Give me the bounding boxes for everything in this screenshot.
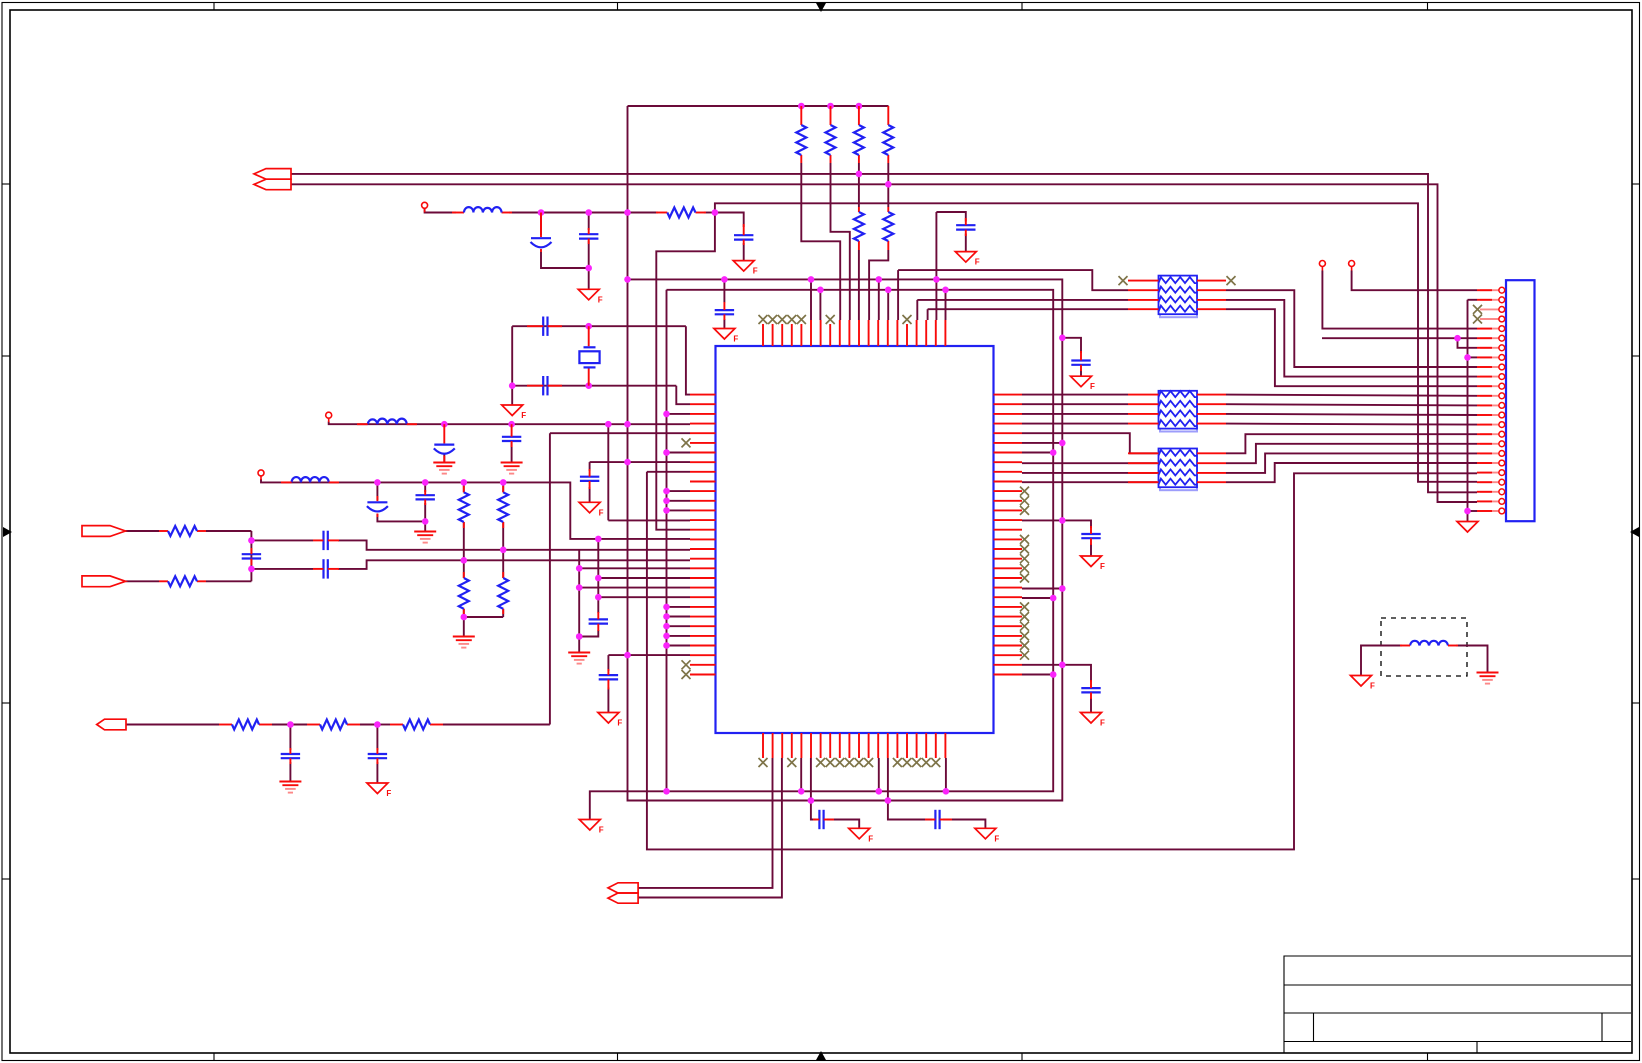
- wire row L26 from bus: [667, 635, 691, 637]
- wire cap C20 gnd link: [1090, 698, 1092, 712]
- wire net pin t18 to pack1 row4: [927, 309, 929, 320]
- svg-text:F: F: [733, 335, 738, 344]
- ground F4: [714, 329, 739, 344]
- no-connect bottom 8: [826, 758, 835, 767]
- wire pack2 row4 to connector: [1226, 424, 1477, 425]
- wire pack1 row2 to p9: [1226, 290, 1477, 367]
- wire net pin t17 to pack1 row3 b: [917, 299, 1128, 301]
- wire top rail y106: [628, 105, 889, 107]
- wire res divider B top: [502, 482, 504, 492]
- dashed box filter: [1381, 618, 1467, 676]
- wire row1 rail y424: [329, 422, 690, 425]
- wire crystal left link: [511, 326, 513, 405]
- ground F12: [849, 828, 874, 843]
- IC U1 left pins: [690, 395, 716, 675]
- node bus579 a: [576, 565, 583, 572]
- node bus598 b: [595, 594, 602, 601]
- capacitor C19: [368, 754, 387, 758]
- resistor R9 lower: [498, 578, 508, 609]
- port arrow IN2: [82, 576, 126, 587]
- wire circle J2 to p1: [1352, 271, 1477, 291]
- node row2 ra: [461, 479, 468, 486]
- wire row L19 stub: [579, 567, 690, 569]
- svg-text:F: F: [753, 267, 758, 276]
- wire bus x608 pin row: [608, 519, 690, 521]
- node rail290 t7: [817, 287, 824, 294]
- node row L28 x627: [624, 652, 631, 659]
- wire pack3 row1 to connector: [1226, 434, 1477, 453]
- ground F9: [1071, 376, 1096, 391]
- wire row L13 from bus: [667, 509, 691, 511]
- ground F8: [367, 783, 392, 798]
- wire cap C9 gnd link: [1090, 544, 1092, 556]
- wire vertical x550: [549, 433, 551, 724]
- wire crystal top rail: [512, 325, 686, 327]
- node arrow3 c19: [374, 721, 381, 728]
- wire pack3 row4 to connector: [1226, 463, 1477, 482]
- node bus579 gnd: [576, 633, 583, 640]
- node railB b14: [885, 797, 892, 804]
- wire rf row y212 b: [509, 212, 628, 214]
- resistor pack RP3: [1159, 449, 1198, 491]
- node rf mid: [585, 209, 592, 216]
- node p6 tie: [1454, 335, 1461, 342]
- wire row L23 from bus: [667, 606, 691, 608]
- wire row L22 stub: [598, 596, 690, 598]
- wire row R3 to pack2: [1022, 413, 1128, 415]
- capacitor C23: [589, 619, 608, 623]
- inductor L2: [368, 419, 407, 425]
- inductor L3: [292, 477, 329, 482]
- port arrow bus A: [254, 169, 291, 180]
- wire row R1 to pack2: [1022, 394, 1128, 396]
- node rail550 rb: [500, 547, 507, 554]
- no-connect bottom 7: [816, 758, 825, 767]
- wire cap C5 branch: [715, 213, 744, 228]
- wire cap C22 out: [943, 820, 985, 829]
- ground E3: [414, 532, 436, 543]
- resistor R8 lower: [459, 578, 469, 609]
- wire cap C19 link: [376, 725, 378, 751]
- no-connect right 27: [1020, 641, 1029, 650]
- wire rail y203 to p21: [715, 203, 1477, 482]
- node bus666 2: [663, 449, 670, 456]
- no-connect top 2: [768, 315, 777, 324]
- wire cap C3 stub: [540, 213, 542, 236]
- node rail290 t14: [885, 287, 892, 294]
- wire resistor R4 lower jog drop: [869, 250, 888, 320]
- terminal T4: [1319, 261, 1325, 271]
- wire res divider A mid: [463, 522, 465, 578]
- wire row R29 to cap: [1022, 665, 1091, 682]
- node bus666 3: [663, 488, 670, 495]
- ground F7: [598, 713, 623, 728]
- node xtal left: [509, 382, 516, 389]
- wire arrow3 row d: [360, 724, 377, 726]
- wire cap C16 row: [590, 461, 690, 463]
- IC U1 right pins: [994, 395, 1023, 675]
- wire row R4 to pack2: [1022, 423, 1128, 425]
- node rf R5 out: [712, 209, 719, 216]
- wire resistor R1 drop to pin jog: [801, 163, 840, 320]
- no-connect bottom 4: [787, 758, 796, 767]
- node xtal bot: [585, 382, 592, 389]
- inductor L4: [1410, 641, 1448, 646]
- node bus666 1: [663, 411, 670, 418]
- capacitor C6: [956, 225, 975, 229]
- node bus666 5: [663, 507, 670, 514]
- wire cap C13 bottom: [424, 503, 426, 531]
- no-connect right 23: [1020, 602, 1029, 611]
- wire pin b5 to rail A: [800, 758, 802, 791]
- wire cap C16 gnd link: [589, 487, 591, 502]
- wire pin t13 column: [878, 279, 880, 320]
- wire row2 rail y482: [261, 479, 690, 539]
- no-connect pack1 right: [1227, 276, 1236, 285]
- capacitor C7: [715, 310, 734, 314]
- no-connect bottom 1: [759, 758, 768, 767]
- wire net pin t15 to pack1 row2: [898, 270, 1128, 290]
- wire res divider A gnd: [463, 617, 465, 636]
- node rail279 t13: [876, 276, 883, 283]
- node railA b20: [943, 788, 950, 795]
- wire row R2 to pack2: [1022, 403, 1128, 405]
- wire arrow2 row b: [206, 580, 251, 582]
- node bus579 b: [576, 584, 583, 591]
- wire cap C7 branch: [723, 279, 725, 302]
- capacitor C12 polarized: [367, 502, 388, 511]
- wire sercap bot path: [251, 568, 313, 570]
- ground F13: [975, 828, 1000, 843]
- wire net pin t18 to pack1 row4 b: [928, 308, 1128, 310]
- no-connect top 4: [787, 315, 796, 324]
- resistor R4b: [883, 212, 893, 241]
- capacitor C8: [1071, 361, 1090, 365]
- wire rail y290: [590, 290, 1053, 820]
- node bus598 a: [595, 575, 602, 582]
- node row2 c13: [422, 479, 429, 486]
- wire row L24 from bus: [667, 616, 691, 618]
- wire bus from port A lower: [291, 184, 1477, 502]
- node arrow3 c18: [287, 721, 294, 728]
- no-connect top 3: [778, 315, 787, 324]
- capacitor C21: [819, 810, 823, 829]
- wire bus x666: [666, 290, 668, 792]
- wire pack1 row3 to p10: [1226, 300, 1477, 377]
- wire resistor R3 link: [858, 163, 860, 207]
- node railA b5: [798, 788, 805, 795]
- wire row R14 to bus: [1022, 519, 1062, 521]
- node bus666 9: [663, 633, 670, 640]
- capacitor C3 polarized: [531, 238, 552, 247]
- wire crystal right bottom to pin L2: [676, 386, 690, 405]
- wire row R6 to bus: [1022, 442, 1062, 444]
- wire row L11 from bus: [667, 490, 691, 492]
- wire vertical x627 upper: [627, 106, 629, 213]
- ground E7: [1477, 673, 1499, 684]
- ground F10: [1081, 556, 1106, 571]
- IC U1 bottom pins: [763, 733, 945, 758]
- wire filter right: [1456, 646, 1488, 673]
- wire res divider A bottom: [464, 609, 503, 617]
- node bus666 7: [663, 613, 670, 620]
- wire filter left: [1361, 646, 1402, 676]
- svg-text:F: F: [1100, 719, 1105, 728]
- node r1 top: [798, 103, 805, 110]
- node gnd bus p8: [1464, 354, 1471, 361]
- wire row R9 to pack3: [1022, 472, 1157, 474]
- capacitor C2: [543, 376, 547, 395]
- wire pin b14 to cap row: [888, 758, 932, 820]
- svg-text:F: F: [975, 258, 980, 267]
- wire p6 jog to p7: [1458, 338, 1478, 348]
- port arrow bus B: [608, 883, 638, 893]
- no-connect bottom 12: [864, 758, 873, 767]
- capacitor C15b: [242, 554, 261, 558]
- ground F1: [733, 261, 758, 276]
- resistor R1: [796, 125, 806, 155]
- wire pin b2 to port B top: [638, 758, 772, 888]
- wire cap C17 link: [607, 655, 609, 671]
- no-connect right 19: [1020, 564, 1029, 573]
- svg-text:F: F: [521, 411, 526, 420]
- node row1 c11: [508, 421, 515, 428]
- node railB b6: [808, 797, 815, 804]
- wire bus x598: [597, 539, 599, 613]
- capacitor C11: [502, 437, 521, 441]
- wire pack2 row2 to connector: [1226, 404, 1477, 405]
- no-connect top 1: [759, 315, 768, 324]
- ground E1: [433, 463, 455, 474]
- wire bus x579: [578, 549, 580, 637]
- node cap16 row: [624, 459, 631, 466]
- ground F15: [1351, 676, 1376, 691]
- terminal T2: [326, 412, 332, 422]
- terminal T1: [422, 202, 428, 212]
- node busA x858: [856, 171, 863, 178]
- ground E6: [279, 782, 301, 793]
- svg-text:F: F: [1100, 562, 1105, 571]
- wire rail y279: [628, 213, 1063, 801]
- no-connect bottom 18: [922, 758, 931, 767]
- node rail279 cap: [721, 276, 728, 283]
- wire cap C13 link: [424, 482, 426, 492]
- wire sercap top path b: [338, 540, 690, 549]
- wire rf row d: [704, 212, 715, 214]
- wire bus x608 to pin: [607, 424, 609, 520]
- svg-text:F: F: [868, 834, 873, 843]
- wire crystal right top to pin L1: [686, 326, 690, 394]
- wire arrow1 drop: [250, 531, 252, 581]
- no-connect bottom 16: [903, 758, 912, 767]
- no-connect left 29: [682, 660, 691, 669]
- no-connect pack1 left: [1119, 276, 1128, 285]
- node busA x888: [885, 181, 892, 188]
- wire cap C18 gnd link: [289, 762, 291, 781]
- wire rf row c: [510, 212, 659, 214]
- node c3 c4 join: [585, 265, 592, 272]
- wire arrow3 row: [126, 724, 219, 726]
- wire pin b6 to cap row: [811, 758, 817, 820]
- resistor R9 upper: [498, 492, 508, 522]
- terminal T5: [1349, 261, 1355, 271]
- svg-text:F: F: [994, 834, 999, 843]
- wire cap C10 gnd link: [443, 453, 445, 463]
- wire row R22 to bus: [1022, 597, 1053, 599]
- node r3 top: [856, 103, 863, 110]
- wire pack3 row2 to connector: [1226, 444, 1477, 463]
- resistor R3: [854, 125, 864, 155]
- port arrow IN1: [82, 526, 126, 537]
- node rf x627: [624, 209, 631, 216]
- capacitor C20: [1081, 688, 1100, 692]
- wire cap C6 branch: [936, 212, 965, 222]
- wire cap C18 link: [289, 725, 291, 751]
- wire row L12 from bus: [667, 500, 691, 502]
- wire arrow3 row e: [377, 724, 390, 726]
- node row1 x627: [624, 421, 631, 428]
- wire pin t14 column: [887, 290, 889, 320]
- resistor R10: [232, 720, 259, 730]
- no-connect left 6: [682, 438, 691, 447]
- resistor R12: [403, 720, 430, 730]
- wire gnd bus vertical: [1468, 299, 1478, 301]
- no-connect right 12: [1020, 496, 1029, 505]
- wire rf row y212: [425, 209, 456, 213]
- wire row L25 from bus: [667, 625, 691, 627]
- connector J3: [1506, 280, 1535, 521]
- capacitor C22: [935, 810, 939, 829]
- node xtal top: [585, 323, 592, 330]
- wire vertical x646: [647, 472, 1477, 850]
- ground E4: [453, 637, 475, 648]
- capacitor C14: [324, 531, 328, 550]
- no-connect left 30: [682, 670, 691, 679]
- no-connect bottom 11: [855, 758, 864, 767]
- wire sercap top path: [251, 539, 313, 541]
- wire cap C12 link: [376, 482, 378, 500]
- svg-text:F: F: [386, 789, 391, 798]
- no-connect right 25: [1020, 622, 1029, 631]
- node res divider gnd: [461, 614, 468, 621]
- node bus666 6: [663, 604, 670, 611]
- resistor R8 upper: [459, 492, 469, 522]
- capacitor C4: [579, 234, 598, 238]
- resistor R4: [883, 125, 893, 155]
- no-connect bottom 10: [845, 758, 854, 767]
- wire cap C11 gnd link: [511, 443, 513, 463]
- node row1 x608: [605, 421, 612, 428]
- no-connect right 17: [1020, 545, 1029, 554]
- wire arrow1 row: [126, 530, 160, 532]
- wire bus x598 b: [579, 630, 598, 637]
- wire res divider A top: [463, 482, 465, 492]
- node railA x666: [663, 788, 670, 795]
- resistor pack RP2: [1159, 391, 1198, 432]
- wire res divider B mid: [502, 522, 504, 578]
- svg-text:F: F: [598, 295, 603, 304]
- terminal T3: [258, 470, 264, 480]
- wire sercap bot path b: [338, 560, 690, 569]
- node row2 rb: [500, 479, 507, 486]
- wire cap C8 gnd link: [1080, 370, 1082, 377]
- node railA b13: [876, 788, 883, 795]
- wire pin t15 column: [897, 270, 899, 320]
- wire bus from port A upper: [291, 174, 1477, 492]
- node gnd bus p24: [1464, 508, 1471, 515]
- no-connect right 24: [1020, 612, 1029, 621]
- wire res divider B bottom: [502, 609, 504, 617]
- wire crystal bottom rail: [512, 385, 676, 387]
- capacitor C18: [281, 754, 300, 758]
- wire net to p6: [1322, 337, 1477, 339]
- wire cap C4 stub: [588, 213, 590, 231]
- wire arrow2 row: [126, 580, 160, 582]
- node sercap top: [248, 537, 255, 544]
- IC U1: [716, 346, 994, 733]
- wire resistor R2 drop to pin jog: [831, 163, 850, 320]
- node rf in: [538, 209, 545, 216]
- no-connect connector p4: [1473, 315, 1482, 324]
- svg-text:F: F: [617, 719, 622, 728]
- node rail279 t16: [933, 276, 940, 283]
- wire arrow3 row c: [290, 724, 307, 726]
- resistor R3b: [854, 212, 864, 241]
- node bus1053 r22: [1050, 595, 1057, 602]
- wire cap C9 branch: [1062, 520, 1091, 528]
- node c12 c13 join: [422, 518, 429, 525]
- wire pack1 row4 to p11: [1226, 309, 1477, 386]
- wire cap C7 gnd link: [723, 319, 725, 329]
- ground F3: [578, 289, 603, 304]
- wire jog from junction down-left: [656, 213, 715, 530]
- connector J3 pins: [1480, 287, 1505, 514]
- resistor R2: [826, 125, 836, 155]
- node sercap bot: [248, 566, 255, 573]
- wire row L27 from bus: [667, 645, 691, 647]
- wire feeder x550 pin L5: [550, 432, 690, 434]
- node bus1062 r21: [1059, 585, 1066, 592]
- node bus1062 r6: [1059, 440, 1066, 447]
- no-connect bottom 19: [931, 758, 940, 767]
- wire arrow3 row f: [443, 724, 550, 726]
- wire cap C8 branch: [1062, 338, 1081, 353]
- no-connect right 11: [1020, 487, 1029, 496]
- wire row R5 jog to pack3: [1022, 433, 1157, 453]
- node bus1053 r30: [1050, 671, 1057, 678]
- svg-text:F: F: [599, 826, 604, 835]
- capacitor C9: [1081, 534, 1100, 538]
- node bus1062 cap8: [1059, 335, 1066, 342]
- node bus1062 r29: [1059, 662, 1066, 669]
- wire resistor R4 link: [887, 163, 889, 207]
- no-connect right 18: [1020, 554, 1029, 563]
- wire row L7 from bus: [667, 452, 691, 454]
- node rail290 t20: [942, 287, 949, 294]
- node bus666 8: [663, 623, 670, 630]
- node r2 top: [827, 103, 834, 110]
- resistor pack RP1: [1159, 276, 1198, 318]
- wire row R7 to bus: [1022, 452, 1053, 454]
- resistor R7: [168, 576, 197, 586]
- wire pin t20 column: [945, 290, 947, 320]
- wire arrow3 row b: [272, 724, 290, 726]
- no-connect right 20: [1020, 574, 1029, 583]
- title block: [1284, 956, 1631, 1053]
- wire gnd bus vertical b: [1467, 300, 1469, 511]
- ground F11: [1081, 713, 1106, 728]
- no-connect top 5: [797, 315, 806, 324]
